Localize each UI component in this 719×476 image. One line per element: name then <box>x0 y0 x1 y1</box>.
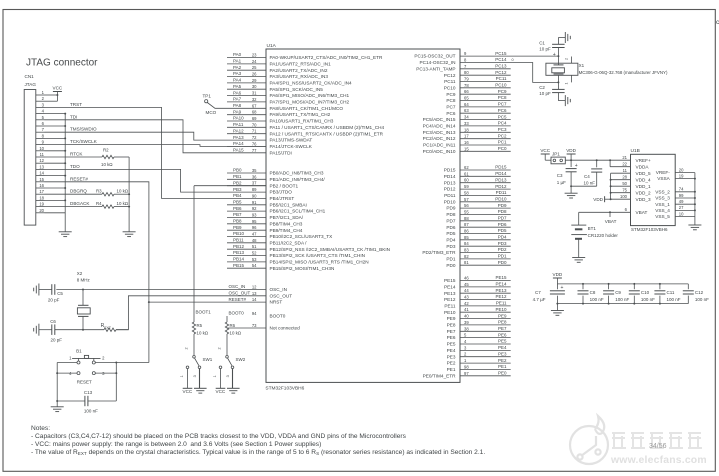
ground (C2) <box>564 95 566 106</box>
svg-text:69: 69 <box>252 116 257 121</box>
svg-text:PC8: PC8 <box>446 98 456 103</box>
svg-text:PA5/SPI1_SCK/ADC_IN5: PA5/SPI1_SCK/ADC_IN5 <box>270 87 324 92</box>
svg-text:TP1: TP1 <box>203 94 212 99</box>
CN1 pin 2 stub <box>36 100 45 102</box>
svg-text:81: 81 <box>464 260 469 265</box>
node PB10 (pin 47) <box>227 236 266 238</box>
svg-text:72: 72 <box>252 135 257 140</box>
svg-text:30: 30 <box>252 84 257 89</box>
svg-text:R6: R6 <box>230 323 236 328</box>
node PD8 (pin 55) <box>460 213 511 215</box>
svg-text:VREF+: VREF+ <box>636 158 652 163</box>
svg-text:PA15: PA15 <box>233 147 244 152</box>
svg-text:PA10: PA10 <box>233 116 244 121</box>
svg-text:20: 20 <box>679 167 684 172</box>
svg-text:PD6: PD6 <box>498 222 507 227</box>
svg-text:PA1/USART2_RTS/ADC_IN1: PA1/USART2_RTS/ADC_IN1 <box>270 62 332 67</box>
svg-text:95: 95 <box>252 219 257 224</box>
svg-text:52: 52 <box>252 251 257 256</box>
CN1 pin 15 stub <box>36 181 45 183</box>
wire BOOT0 net <box>226 316 228 322</box>
wire JTAG even-pin ground bus <box>45 113 66 115</box>
svg-text:16: 16 <box>39 183 44 188</box>
svg-text:B1: B1 <box>76 348 82 353</box>
svg-text:PA6/SPI1_MISO/ADC_IN6/TIM3_CH1: PA6/SPI1_MISO/ADC_IN6/TIM3_CH1 <box>270 93 350 98</box>
svg-text:VSS_1: VSS_1 <box>655 202 670 207</box>
svg-text:PE12: PE12 <box>495 294 507 299</box>
svg-text:PB5: PB5 <box>233 199 242 204</box>
svg-text:PB8/TIM4_CH3: PB8/TIM4_CH3 <box>270 221 303 226</box>
svg-text:51: 51 <box>252 244 257 249</box>
svg-text:PB11: PB11 <box>233 238 244 243</box>
wire VREF+/VDDA rail <box>565 159 630 161</box>
node PC6 (pin 63) <box>460 112 511 114</box>
CN1 pin 12 stub <box>36 162 45 164</box>
node PE0 (pin 97) <box>460 375 511 377</box>
svg-text:PB6: PB6 <box>233 206 242 211</box>
svg-text:PD4: PD4 <box>498 235 507 240</box>
svg-text:C7: C7 <box>535 290 541 295</box>
svg-text:PC3/ADC_IN13: PC3/ADC_IN13 <box>423 130 456 135</box>
svg-text:U1A: U1A <box>267 43 277 49</box>
node PE5 (pin 4) <box>460 343 511 345</box>
svg-text:76: 76 <box>252 141 257 146</box>
CN1 pin 14 stub <box>36 175 45 177</box>
svg-text:U1B: U1B <box>631 148 640 154</box>
svg-text:PA7/SPI1_MOSI/ADC_IN7/TIM3_CH2: PA7/SPI1_MOSI/ADC_IN7/TIM3_CH2 <box>270 100 350 105</box>
node PA14 (pin 76) <box>227 145 266 147</box>
svg-text:JTAG connector: JTAG connector <box>26 58 98 69</box>
svg-text:PA13/JTMS-SWDAT: PA13/JTMS-SWDAT <box>270 138 313 143</box>
svg-text:1: 1 <box>565 83 569 85</box>
svg-text:PD11: PD11 <box>444 193 456 198</box>
svg-text:4.7 µF: 4.7 µF <box>533 297 546 302</box>
svg-text:PA14/JTCK-SWCLK: PA14/JTCK-SWCLK <box>270 144 313 149</box>
capacitor C3 1uF <box>570 160 572 167</box>
wire XTAL bottom to REXT <box>82 329 84 331</box>
node PA4 (pin 29) <box>227 82 266 84</box>
node PC10 (pin 78) <box>460 87 511 89</box>
svg-text:17: 17 <box>464 134 469 139</box>
wire VBAT net <box>579 211 631 213</box>
capacitor C9 100 nF <box>608 284 610 289</box>
svg-text:OSC_OUT: OSC_OUT <box>270 293 293 298</box>
svg-text:42: 42 <box>464 301 469 306</box>
svg-text:+: + <box>575 163 578 169</box>
svg-text:www.elecfans.com: www.elecfans.com <box>610 455 707 466</box>
svg-text:JP1: JP1 <box>552 152 560 157</box>
svg-text:PA9: PA9 <box>233 109 242 114</box>
node PD10 (pin 57) <box>460 201 511 203</box>
svg-text:83: 83 <box>464 248 469 253</box>
svg-text:43: 43 <box>464 295 469 300</box>
svg-text:PB9: PB9 <box>233 225 242 230</box>
svg-text:PA5: PA5 <box>233 84 242 89</box>
svg-text:PE12: PE12 <box>444 297 456 302</box>
svg-text:SW1: SW1 <box>203 357 213 362</box>
svg-text:PE11: PE11 <box>444 304 456 309</box>
node PE9 (pin 40) <box>460 318 511 320</box>
svg-text:PE6: PE6 <box>498 332 507 337</box>
CN1 pin 6 stub <box>36 125 45 127</box>
svg-text:PE13: PE13 <box>495 288 507 293</box>
svg-text:PA7: PA7 <box>233 97 242 102</box>
power VDD (decoupling bank) <box>553 277 562 279</box>
svg-text:PC15-OSC32_OUT: PC15-OSC32_OUT <box>414 54 455 59</box>
node PD2 (pin 83) <box>460 252 511 254</box>
svg-text:89: 89 <box>252 187 257 192</box>
svg-text:PC9: PC9 <box>446 92 456 97</box>
svg-text:PD8: PD8 <box>446 212 456 217</box>
CN1 pin 19 stub <box>36 206 45 208</box>
svg-text:PC2/ADC_IN12: PC2/ADC_IN12 <box>423 136 456 141</box>
svg-text:PC4/ADC_IN14: PC4/ADC_IN14 <box>423 124 456 129</box>
ground (C3/C4) <box>565 192 578 194</box>
svg-text:RESET#: RESET# <box>229 297 247 302</box>
svg-text:PB5/I2C1_SMBAI: PB5/I2C1_SMBAI <box>270 202 307 207</box>
svg-text:VDD_5: VDD_5 <box>636 171 652 176</box>
svg-text:PC1/ADC_IN11: PC1/ADC_IN11 <box>423 143 456 148</box>
svg-text:2: 2 <box>185 347 189 349</box>
node PE2 (pin 1) <box>460 362 511 364</box>
svg-text:PD1: PD1 <box>498 254 507 259</box>
wire OSC_IN net <box>56 289 266 291</box>
svg-text:93: 93 <box>252 212 257 217</box>
svg-text:PE8: PE8 <box>447 323 456 328</box>
CN1 pin 20 stub <box>36 212 45 214</box>
node PD5 (pin 86) <box>460 233 511 235</box>
svg-text:PD13: PD13 <box>495 177 507 182</box>
svg-text:VDD: VDD <box>566 148 576 153</box>
svg-text:82: 82 <box>464 254 469 259</box>
node NC pin 73 <box>227 327 266 329</box>
svg-text:80: 80 <box>464 70 469 75</box>
node PA11 (pin 70) <box>227 126 266 128</box>
node PA10 (pin 69) <box>227 120 266 122</box>
wire TCK/SWCLK net (pin9 to PA14) <box>45 145 267 147</box>
wire RESET# net (pin15) <box>45 182 149 363</box>
svg-text:10 kΩ: 10 kΩ <box>197 330 209 335</box>
svg-text:PD2: PD2 <box>498 247 507 252</box>
svg-text:22: 22 <box>622 162 627 167</box>
svg-text:11: 11 <box>40 152 45 157</box>
wire decoupling bottom rail <box>557 303 688 305</box>
svg-text:NRST: NRST <box>270 300 283 305</box>
svg-text:C3: C3 <box>557 173 563 178</box>
svg-text:PC4: PC4 <box>498 121 507 126</box>
node PA3 (pin 26) <box>227 76 266 78</box>
svg-text:PC2: PC2 <box>498 133 507 138</box>
svg-text:92: 92 <box>252 206 257 211</box>
svg-text:PD1: PD1 <box>446 257 456 262</box>
svg-text:VCC: VCC <box>540 148 550 153</box>
svg-text:PD9: PD9 <box>498 203 507 208</box>
svg-text:PD14: PD14 <box>495 171 507 176</box>
svg-text:PC13: PC13 <box>495 64 507 69</box>
svg-text:PB2 / BOOT1: PB2 / BOOT1 <box>270 183 299 188</box>
wire RTCK net with pulldown <box>45 156 103 158</box>
ground (SW1) <box>199 369 201 389</box>
svg-text:VSS_2: VSS_2 <box>655 189 670 194</box>
svg-text:R2: R2 <box>103 148 109 153</box>
CN1 pin 17 stub <box>36 193 45 195</box>
svg-text:PD11: PD11 <box>496 190 507 195</box>
svg-text:8 MHz: 8 MHz <box>77 278 91 283</box>
svg-text:64: 64 <box>464 102 469 107</box>
svg-text:RESET#: RESET# <box>70 176 88 181</box>
capacitor C7 4.7 µF <box>556 284 558 289</box>
svg-text:PE11: PE11 <box>496 301 507 306</box>
ground (decoupling bank) <box>556 304 558 311</box>
svg-text:PD4: PD4 <box>446 237 456 242</box>
svg-text:44: 44 <box>464 288 469 293</box>
node PD7 (pin 88) <box>460 220 511 222</box>
svg-text:PD12: PD12 <box>444 187 456 192</box>
ground (U1B VSS) <box>688 224 701 226</box>
svg-text:PE9: PE9 <box>498 313 507 318</box>
svg-text:PA12 / USART1_RTS/CANTX / USBD: PA12 / USART1_RTS/CANTX / USBDP (2)/TIM1… <box>270 131 384 136</box>
svg-text:TRST: TRST <box>70 102 82 107</box>
svg-text:10 kΩ: 10 kΩ <box>117 189 129 194</box>
capacitor C5 20pF <box>51 284 53 295</box>
svg-text:PE4: PE4 <box>447 348 456 353</box>
svg-text:PA11 / USART1_CTS/CANRX / USBD: PA11 / USART1_CTS/CANRX / USBDM (2)/TIM1… <box>270 125 385 130</box>
svg-text:PE3: PE3 <box>447 354 456 359</box>
svg-text:X2: X2 <box>77 271 83 276</box>
wire C3/C4 ground rail <box>571 185 597 187</box>
svg-text:11: 11 <box>623 168 628 173</box>
svg-text:STM32F103VBH6: STM32F103VBH6 <box>265 386 304 392</box>
wire TMS/SWDIO net (pin7 to PA13) <box>45 132 267 140</box>
svg-text:100 nF: 100 nF <box>615 297 629 302</box>
svg-text:PB6/I2C1_SCL/TIM4_CH1: PB6/I2C1_SCL/TIM4_CH1 <box>270 209 326 214</box>
node PC1 (pin 16) <box>460 144 511 146</box>
power VDD feed to VDD_3 <box>604 196 606 202</box>
svg-text:15: 15 <box>39 177 44 182</box>
svg-text:TCK/SWCLK: TCK/SWCLK <box>70 139 98 144</box>
svg-text:48: 48 <box>252 238 257 243</box>
resistor R6 10k <box>225 322 228 334</box>
svg-text:TDO: TDO <box>70 164 80 169</box>
svg-text:10 kΩ: 10 kΩ <box>117 201 129 206</box>
svg-text:PA2: PA2 <box>233 65 242 70</box>
CN1 pin 8 stub <box>36 137 45 139</box>
svg-text:29: 29 <box>252 78 257 83</box>
svg-text:55: 55 <box>464 209 469 214</box>
svg-text:PD0: PD0 <box>446 263 456 268</box>
svg-text:PD15: PD15 <box>495 165 507 170</box>
svg-text:VBAT: VBAT <box>636 210 648 215</box>
svg-text:PC10: PC10 <box>444 85 456 90</box>
svg-text:PB0: PB0 <box>233 168 242 173</box>
wire OSC_OUT net <box>116 296 266 330</box>
svg-text:PA9/USART1_TX/TIM1_CH2: PA9/USART1_TX/TIM1_CH2 <box>270 112 331 117</box>
svg-text:PB13: PB13 <box>233 250 245 255</box>
svg-text:PE2: PE2 <box>498 358 507 363</box>
svg-text:PB7: PB7 <box>233 212 242 217</box>
svg-text:13: 13 <box>39 164 44 169</box>
svg-text:PC7: PC7 <box>498 102 507 107</box>
node PE15 (pin 46) <box>460 280 511 282</box>
svg-text:PB7/I2C1_SDA/: PB7/I2C1_SDA/ <box>270 215 304 220</box>
node PC3 (pin 18) <box>460 131 511 133</box>
svg-text:VCC: VCC <box>183 389 193 394</box>
svg-text:3: 3 <box>226 375 230 377</box>
node PC4 (pin 33) <box>460 125 511 127</box>
svg-text:PE2: PE2 <box>447 361 456 366</box>
CN1 pin 11 stub <box>36 156 45 158</box>
CN1 pin 16 stub <box>36 187 45 189</box>
svg-text:C6: C6 <box>50 319 56 324</box>
svg-text:31: 31 <box>252 91 257 96</box>
svg-text:PC11: PC11 <box>496 76 507 81</box>
node PD3 (pin 84) <box>460 245 511 247</box>
CN1 pin 3 stub <box>36 106 45 108</box>
svg-text:23: 23 <box>252 53 257 58</box>
svg-text:PC0: PC0 <box>498 146 507 151</box>
svg-text:PC10: PC10 <box>495 83 507 88</box>
svg-text:C12: C12 <box>695 290 704 295</box>
node PA9 (pin 68) <box>227 114 266 116</box>
svg-text:PB12/SPI2_NSS /I2C2_SMBAI/USAR: PB12/SPI2_NSS /I2C2_SMBAI/USART3_CK /TIM… <box>270 247 391 252</box>
svg-text:PC1: PC1 <box>498 140 507 145</box>
svg-text:26: 26 <box>252 72 257 77</box>
svg-text:49: 49 <box>679 199 684 204</box>
svg-text:20 pF: 20 pF <box>51 338 63 343</box>
svg-text:PA2/USART2_TX/ADC_IN2: PA2/USART2_TX/ADC_IN2 <box>270 68 328 73</box>
svg-text:C5: C5 <box>57 291 63 296</box>
svg-text:VSS_4: VSS_4 <box>655 208 670 213</box>
svg-text:VDD: VDD <box>593 197 603 202</box>
svg-text:VCC: VCC <box>216 389 226 394</box>
svg-text:PB10: PB10 <box>233 231 245 236</box>
svg-text:PB15/SPI2_MOSI/TIM1_CH3N: PB15/SPI2_MOSI/TIM1_CH3N <box>270 266 335 271</box>
capacitor C10 100 nF <box>633 284 635 289</box>
svg-text:VBAT: VBAT <box>605 219 617 224</box>
svg-text:C8: C8 <box>590 290 596 295</box>
node PA0 (pin 23) <box>227 57 266 59</box>
ground (reset circuit) <box>56 400 58 402</box>
svg-text:28: 28 <box>622 175 627 180</box>
svg-text:94: 94 <box>252 311 257 316</box>
svg-text:PA0-WKUP/USART2_CTS/ADC_IN0/TI: PA0-WKUP/USART2_CTS/ADC_IN0/TIM2_CH1_ETR <box>270 55 383 60</box>
ground (C1) <box>564 32 566 43</box>
svg-text:MC306-G-06Q-32.768 (manufactur: MC306-G-06Q-32.768 (manufacturer JFVNY) <box>579 70 668 75</box>
svg-text:DBGRQ: DBGRQ <box>70 189 87 194</box>
svg-text:57: 57 <box>464 197 469 202</box>
node PB7 (pin 93) <box>227 216 266 218</box>
svg-text:C4: C4 <box>584 174 590 179</box>
svg-text:VREF-: VREF- <box>656 170 671 175</box>
svg-text:VDD_4: VDD_4 <box>636 177 652 182</box>
crystal X1 32.768 kHz <box>557 56 559 65</box>
svg-text:99: 99 <box>679 193 684 198</box>
svg-text:100 nF: 100 nF <box>667 297 681 302</box>
svg-text:63: 63 <box>464 108 469 113</box>
svg-text:PC5/ADC_IN15: PC5/ADC_IN15 <box>423 117 456 122</box>
svg-text:74: 74 <box>679 187 684 192</box>
svg-text:PE1: PE1 <box>447 367 456 372</box>
node PC11 (pin 79) <box>460 81 511 83</box>
svg-text:25: 25 <box>252 65 257 70</box>
svg-text:CN1: CN1 <box>25 74 35 79</box>
svg-text:R4: R4 <box>96 201 102 206</box>
svg-text:54: 54 <box>252 263 257 268</box>
wire MCO to PA8 <box>207 103 266 109</box>
CN1 pin 1 stub <box>36 94 45 96</box>
svg-text:SW2: SW2 <box>236 357 246 362</box>
wire RESET# to MCU and button <box>149 301 266 303</box>
node PC13 (pin 7) <box>460 68 511 70</box>
svg-text:PD10: PD10 <box>444 199 456 204</box>
svg-text:79: 79 <box>464 77 469 82</box>
wire button right rail <box>95 362 116 364</box>
node PE4 (pin 3) <box>460 349 511 351</box>
svg-text:PD3: PD3 <box>446 244 456 249</box>
svg-text:PD7: PD7 <box>446 218 456 223</box>
svg-text:VSS_3: VSS_3 <box>655 196 670 201</box>
svg-text:100 nF: 100 nF <box>695 297 709 302</box>
svg-text:97: 97 <box>464 371 469 376</box>
node PB15 (pin 54) <box>227 267 266 269</box>
svg-text:36: 36 <box>252 174 257 179</box>
svg-text:39: 39 <box>464 320 469 325</box>
svg-text:TDI: TDI <box>70 114 77 119</box>
svg-text:34: 34 <box>464 115 469 120</box>
svg-text:90: 90 <box>252 193 257 198</box>
svg-text:X1: X1 <box>579 63 585 68</box>
svg-text:- VCC: mains power supply: the: - VCC: mains power supply: the range is … <box>31 441 321 448</box>
ground (C6) <box>38 324 40 336</box>
svg-text:67: 67 <box>252 103 257 108</box>
node PE14 (pin 45) <box>460 286 511 288</box>
node PE11 (pin 42) <box>460 305 511 307</box>
svg-text:PB1/ADC_IN9/TIM3_CH4/: PB1/ADC_IN9/TIM3_CH4/ <box>270 177 326 182</box>
svg-text:VSS_5: VSS_5 <box>655 214 670 219</box>
node PE6 (pin 5) <box>460 337 511 339</box>
svg-text:20: 20 <box>39 208 44 213</box>
svg-text:19: 19 <box>39 202 44 207</box>
capacitor C4 10nF <box>596 160 598 167</box>
resistor R5 10k <box>192 322 195 334</box>
svg-text:PE0: PE0 <box>498 370 507 375</box>
svg-text:OSC_IN: OSC_IN <box>229 284 246 289</box>
svg-text:PE7: PE7 <box>447 329 456 334</box>
svg-text:PE6: PE6 <box>447 335 456 340</box>
svg-text:33: 33 <box>464 121 469 126</box>
svg-text:PE10: PE10 <box>444 310 456 315</box>
svg-text:PB8: PB8 <box>233 219 242 224</box>
svg-text:PB12: PB12 <box>233 244 245 249</box>
node PE10 (pin 41) <box>460 311 511 313</box>
svg-text:C1: C1 <box>539 40 545 45</box>
svg-text:PD14: PD14 <box>444 174 456 179</box>
power VCC at JP1 <box>541 153 550 155</box>
resistor R4 10k <box>102 205 114 208</box>
svg-text:50: 50 <box>622 181 627 186</box>
svg-text:PE10: PE10 <box>495 307 507 312</box>
svg-text:17: 17 <box>39 189 44 194</box>
svg-text:C9: C9 <box>615 290 621 295</box>
node PA12 (pin 71) <box>227 133 266 135</box>
wire TDO net (pin13 to PB3/JTDO) <box>45 169 267 192</box>
svg-text:PC0/ADC_IN10: PC0/ADC_IN10 <box>423 149 456 154</box>
svg-text:PE3: PE3 <box>498 351 507 356</box>
node PB6 (pin 92) <box>227 210 266 212</box>
svg-text:68: 68 <box>252 110 257 115</box>
svg-text:46: 46 <box>464 276 469 281</box>
svg-text:84: 84 <box>464 241 469 246</box>
